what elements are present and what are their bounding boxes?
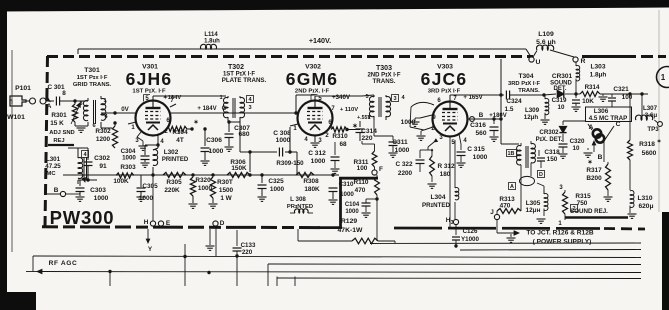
svg-text:3RD PɪX I·F: 3RD PɪX I·F <box>428 89 461 95</box>
svg-text:C303: C303 <box>90 187 106 194</box>
resistor R307 <box>211 173 214 176</box>
transformer T301 secondary <box>101 99 106 121</box>
svg-text:C321: C321 <box>613 86 629 93</box>
svg-text:5.6 μh: 5.6 μh <box>536 39 556 46</box>
wire C302 bottom join <box>78 179 97 181</box>
module border top dashed segment <box>47 55 533 58</box>
svg-text:1 W: 1 W <box>220 195 232 202</box>
ground C126 right <box>507 237 516 239</box>
svg-text:C319: C319 <box>552 97 567 104</box>
svg-text:10: 10 <box>558 104 565 111</box>
svg-text:Y: Y <box>148 246 153 253</box>
wire B to border <box>47 193 61 195</box>
module border bottom heavy right <box>394 227 600 230</box>
wire D drop <box>215 175 217 222</box>
resistor R315 <box>564 190 566 192</box>
svg-text:L305: L305 <box>526 200 541 207</box>
svg-text:1000: 1000 <box>139 195 154 202</box>
svg-text:PRINTED: PRINTED <box>162 157 189 163</box>
trap coil blob <box>593 129 601 137</box>
svg-text:R110: R110 <box>354 179 369 186</box>
pin 7 V303 <box>449 97 451 101</box>
terminal B <box>60 191 65 196</box>
svg-text:B: B <box>598 154 603 161</box>
module border bottom dashed left <box>42 225 320 229</box>
svg-text:+140V.: +140V. <box>309 36 331 45</box>
svg-text:1000: 1000 <box>345 209 359 215</box>
svg-text:D: D <box>220 220 225 227</box>
svg-text:620μ: 620μ <box>638 203 653 210</box>
svg-text:68: 68 <box>339 141 347 148</box>
wire pin5 to T302 top <box>153 95 226 97</box>
bus tick x277 <box>276 277 278 287</box>
svg-text:1.8μh: 1.8μh <box>590 72 607 79</box>
svg-text:5600: 5600 <box>642 150 657 157</box>
capacitor C311 <box>373 120 375 136</box>
svg-text:3: 3 <box>135 138 139 144</box>
svg-text:C133: C133 <box>241 242 256 249</box>
svg-text:10K: 10K <box>582 98 594 105</box>
svg-text:R308: R308 <box>303 178 319 185</box>
svg-text:R317: R317 <box>586 167 602 174</box>
inductor L301 <box>78 158 83 179</box>
transformer T303 primary <box>369 97 374 117</box>
svg-text:T302: T302 <box>228 64 244 71</box>
diode CR301 <box>544 94 556 95</box>
pin 4 V301 <box>157 135 159 148</box>
resistor R309 <box>296 172 314 177</box>
svg-text:470: 470 <box>355 187 366 194</box>
svg-text:L304: L304 <box>430 194 445 201</box>
svg-text:4T: 4T <box>176 137 184 144</box>
svg-text:F: F <box>379 166 383 173</box>
wire plug to C301 <box>46 100 54 102</box>
svg-text:2: 2 <box>164 129 168 135</box>
svg-text:1500: 1500 <box>219 187 234 194</box>
svg-text:TRANS.: TRANS. <box>518 88 540 94</box>
svg-text:R303: R303 <box>120 164 136 171</box>
label B +180V <box>470 117 475 122</box>
tube V302 envelope <box>298 101 333 136</box>
svg-text:U: U <box>536 59 541 66</box>
capacitor C319 <box>575 94 577 98</box>
inductor L304 printed <box>454 140 456 188</box>
svg-text:47.25: 47.25 <box>45 163 61 170</box>
svg-text:1.8uh: 1.8uh <box>204 39 220 45</box>
svg-text:3: 3 <box>393 96 396 102</box>
transformer T302 primary <box>223 98 228 118</box>
svg-text:2ND PɪX. I·F: 2ND PɪX. I·F <box>295 89 330 95</box>
connector contact circle 2 <box>40 98 46 104</box>
inductor L302 printed <box>153 148 158 150</box>
wire T301 secondary to grid <box>100 122 102 128</box>
svg-text:L109: L109 <box>538 31 554 38</box>
svg-text:+180V: +180V <box>489 113 507 119</box>
svg-text:6GM6: 6GM6 <box>286 69 338 89</box>
svg-text:L306: L306 <box>594 108 609 115</box>
cable W101 plug stub <box>11 100 13 104</box>
module border notch horizontal heavy <box>339 177 378 180</box>
svg-text:9: 9 <box>432 115 436 121</box>
svg-text:♦: ♦ <box>430 148 433 154</box>
capacitor C126 <box>455 225 457 236</box>
inductor L114 <box>201 44 217 49</box>
resistor R305 <box>163 172 186 177</box>
svg-text:RF AGC: RF AGC <box>49 260 78 267</box>
inductor L109 <box>533 51 537 58</box>
capacitor C310 <box>332 175 334 186</box>
svg-text:R 312: R 312 <box>437 163 454 170</box>
transformer T301 core <box>93 100 95 124</box>
svg-text:12μʜ: 12μʜ <box>526 207 541 214</box>
bus tick x185 <box>184 244 186 286</box>
pin 5 V302 boxed <box>314 96 316 100</box>
resistor R314 wire <box>576 93 580 95</box>
bus wire 2 <box>460 249 641 252</box>
wire H drop <box>152 175 154 221</box>
pin 9 V303 <box>420 115 432 118</box>
wire C301 to T301 <box>60 100 88 102</box>
resistor R311 <box>374 144 376 151</box>
wire V303 plate right <box>468 118 501 120</box>
svg-text:220K: 220K <box>164 187 180 194</box>
svg-text:H: H <box>144 219 149 226</box>
svg-text:7: 7 <box>331 106 335 112</box>
svg-text:R314: R314 <box>585 84 600 91</box>
svg-text:T304: T304 <box>518 73 533 80</box>
svg-text:R315: R315 <box>575 193 591 200</box>
svg-text:3RD PɪX I·F: 3RD PɪX I·F <box>508 81 540 87</box>
svg-text:R30T: R30T <box>217 179 233 186</box>
photo border bottom-left corner patch <box>0 292 36 310</box>
svg-text:C104: C104 <box>345 202 360 208</box>
svg-text:R309-150: R309-150 <box>276 160 304 167</box>
capacitor C314 <box>359 121 361 127</box>
capacitor C308 series <box>239 122 241 152</box>
svg-text:220: 220 <box>361 135 372 142</box>
terminal D <box>213 221 218 226</box>
svg-text:C320: C320 <box>570 138 585 145</box>
svg-text:C 312: C 312 <box>308 150 326 157</box>
resistor R110 <box>376 175 378 177</box>
wire R110 bottom to R129 <box>376 212 378 241</box>
bus wire left bend <box>32 256 34 272</box>
svg-text:B200: B200 <box>586 175 602 182</box>
svg-text:3: 3 <box>559 185 563 191</box>
svg-text:R301: R301 <box>51 112 67 119</box>
svg-text:+ 184V: + 184V <box>197 106 216 112</box>
svg-text:R129: R129 <box>341 218 357 225</box>
svg-text:3.6μ: 3.6μ <box>645 112 658 119</box>
bus wire 3 <box>268 263 641 266</box>
svg-text:A: A <box>47 103 52 110</box>
svg-text:1000: 1000 <box>270 186 285 193</box>
right page edge line <box>658 10 660 212</box>
svg-text:2200: 2200 <box>398 170 413 177</box>
capacitor C133 <box>236 230 238 246</box>
svg-text:J: J <box>490 209 494 216</box>
svg-text:1: 1 <box>558 221 562 227</box>
module border left dashed <box>45 56 48 226</box>
svg-text:180: 180 <box>440 171 451 178</box>
svg-text:4: 4 <box>463 138 467 144</box>
svg-text:C316: C316 <box>470 122 486 129</box>
capacitor C301 <box>55 97 57 106</box>
capacitor C322 <box>428 142 434 147</box>
svg-text:+ 110V: + 110V <box>340 107 358 113</box>
bus tick x295 <box>294 277 296 287</box>
svg-text:560: 560 <box>475 130 486 137</box>
transformer T302 secondary <box>240 98 245 118</box>
svg-text:DET.: DET. <box>553 86 566 92</box>
svg-text:C126: C126 <box>463 228 478 235</box>
svg-text:W101: W101 <box>7 114 25 121</box>
transformer T304 secondary <box>531 144 535 163</box>
capacitor C306 <box>204 129 206 146</box>
svg-text:✶: ✶ <box>587 159 592 166</box>
svg-text:1200: 1200 <box>96 136 111 143</box>
svg-text:1: 1 <box>131 125 135 131</box>
svg-text:( POWER SUPPLY): ( POWER SUPPLY) <box>533 239 592 246</box>
wire L302 joins grid row <box>151 173 154 176</box>
wire grid left <box>115 112 136 114</box>
svg-text:L310: L310 <box>637 195 652 202</box>
terminal F <box>372 170 377 175</box>
junction dot A-R301 <box>73 99 76 102</box>
transformer T303 core <box>378 97 380 117</box>
wire H3 to heavy <box>455 219 457 225</box>
pin 3 V301 <box>137 132 141 137</box>
capacitor C312 <box>334 142 336 155</box>
svg-text:15 K: 15 K <box>50 120 64 127</box>
svg-text:150: 150 <box>547 156 558 163</box>
bus wire 5 <box>277 277 641 280</box>
svg-text:150K: 150K <box>231 165 247 172</box>
pin 1 V301 <box>128 122 136 124</box>
svg-text:C310: C310 <box>339 181 354 188</box>
transformer T304 core <box>525 146 527 168</box>
svg-text:1.5: 1.5 <box>505 106 514 113</box>
svg-text:R: R <box>581 58 586 65</box>
transformer T303 secondary <box>386 96 391 116</box>
svg-text:L301: L301 <box>46 156 61 163</box>
trap adjust arrow <box>593 143 595 152</box>
svg-text:1000: 1000 <box>276 137 291 144</box>
tube V301 envelope <box>136 101 171 136</box>
photo border left bar <box>0 0 7 310</box>
svg-text:L114: L114 <box>204 32 218 38</box>
bus wire agc return <box>42 272 641 273</box>
svg-text:47K-1W: 47K-1W <box>338 227 364 234</box>
pin 1 V302 <box>290 124 298 126</box>
svg-text:1000: 1000 <box>340 191 354 198</box>
svg-text:PɪX. DET.: PɪX. DET. <box>536 137 563 143</box>
transformer T304 primary <box>517 146 521 165</box>
svg-text:ADJ SND: ADJ SND <box>49 130 74 136</box>
capacitor C321 <box>611 94 613 97</box>
svg-text:TO JCT. R126 & R12B: TO JCT. R126 & R12B <box>526 230 594 237</box>
module border notch vertical heavy <box>339 177 342 229</box>
svg-text:7: 7 <box>453 96 457 102</box>
trap ground <box>584 152 593 154</box>
svg-text:C324: C324 <box>506 98 522 105</box>
connector contact circle 1 <box>30 98 36 104</box>
bus wire rf agc top <box>33 256 641 258</box>
svg-text:1: 1 <box>367 115 370 121</box>
svg-text:1: 1 <box>293 126 297 132</box>
svg-text:1: 1 <box>219 95 222 101</box>
svg-text:L 308: L 308 <box>290 196 306 203</box>
cable W101 shield drop <box>11 50 13 252</box>
svg-text:TP3: TP3 <box>647 126 659 133</box>
svg-text:0V: 0V <box>121 106 129 113</box>
svg-text:+ 165V: + 165V <box>463 95 482 101</box>
svg-text:8: 8 <box>62 90 66 97</box>
resistor R301 <box>74 101 76 104</box>
capacitor C305 <box>140 176 142 188</box>
svg-text:L307: L307 <box>643 105 658 112</box>
svg-text:4: 4 <box>401 95 405 101</box>
svg-text:6JC6: 6JC6 <box>421 69 468 89</box>
ground near C133 <box>206 245 215 247</box>
svg-text:T303: T303 <box>376 65 392 72</box>
svg-text:C302: C302 <box>94 155 110 162</box>
svg-text:R318: R318 <box>639 141 655 148</box>
svg-text:SOUND REJ.: SOUND REJ. <box>570 208 608 215</box>
svg-text:1000: 1000 <box>209 148 224 155</box>
resistor R304 <box>165 123 167 129</box>
svg-text:1000: 1000 <box>473 154 488 161</box>
wire L301 top <box>77 148 79 155</box>
svg-text:1: 1 <box>661 73 666 82</box>
inductor L310 <box>630 190 634 207</box>
svg-text:12μh: 12μh <box>524 114 539 121</box>
svg-text:T301: T301 <box>84 67 100 74</box>
svg-text:91: 91 <box>99 163 107 170</box>
svg-text:R310: R310 <box>332 133 348 140</box>
svg-text:R302: R302 <box>95 128 111 135</box>
svg-text:MC: MC <box>46 171 56 177</box>
svg-text:C 322: C 322 <box>395 161 412 168</box>
resistor R313 <box>496 211 498 215</box>
circled section marker 1 <box>657 67 669 88</box>
svg-text:R305: R305 <box>166 179 182 186</box>
pin 2 V303 <box>424 127 433 130</box>
junction R304 right <box>190 127 193 130</box>
pin 3 V302 <box>314 136 316 142</box>
capacitor C315 <box>460 144 462 150</box>
capacitor C324 series <box>501 94 504 96</box>
svg-text:1000: 1000 <box>122 155 136 162</box>
bus tick x110 <box>109 272 111 287</box>
bus wire 1 <box>370 242 641 245</box>
svg-text:1ST PɪX. I·F: 1ST PɪX. I·F <box>132 89 166 95</box>
svg-text:220: 220 <box>242 249 253 256</box>
coupling loop L305 link <box>520 176 535 185</box>
resistor R306 <box>227 172 250 177</box>
capacitor C325 <box>260 173 263 176</box>
photo border bottom-right corner patch <box>662 212 669 310</box>
wire plate row y113 <box>170 112 296 114</box>
svg-text:100K: 100K <box>113 178 129 185</box>
node A arrow <box>46 98 50 102</box>
inductor L307 <box>641 94 643 120</box>
svg-text:+340V: +340V <box>332 94 351 101</box>
svg-text:✶: ✶ <box>657 138 662 145</box>
svg-text:E: E <box>166 220 171 227</box>
module border top dashed segment right <box>582 55 636 58</box>
resistor R129 <box>298 240 352 242</box>
wire V303 cathode drop <box>449 148 451 227</box>
svg-text:C311: C311 <box>392 139 408 146</box>
svg-text:1000: 1000 <box>198 185 213 192</box>
svg-text:750: 750 <box>577 200 588 207</box>
svg-text:1000: 1000 <box>94 195 109 202</box>
svg-text:C318: C318 <box>544 149 560 156</box>
wire T303 pri top <box>362 95 374 96</box>
wire V303 pin7 up <box>449 95 451 101</box>
wire T301 primary bottom <box>75 125 88 127</box>
svg-text:REJ: REJ <box>53 138 64 144</box>
svg-text:B: B <box>54 187 59 194</box>
svg-text:C325: C325 <box>268 178 284 185</box>
diode CR302 <box>563 120 586 122</box>
svg-text:C 308: C 308 <box>273 130 291 137</box>
svg-text:1000: 1000 <box>395 147 410 154</box>
wire R129 right drop <box>394 241 396 244</box>
module border bottom dashed far right <box>604 227 645 230</box>
svg-text:4: 4 <box>160 139 164 145</box>
wire R302 top to tube grid <box>101 112 136 114</box>
photo border top bar <box>0 0 669 12</box>
svg-text:C 315: C 315 <box>467 146 485 153</box>
svg-text:100: 100 <box>357 165 368 172</box>
transformer T301 primary <box>83 100 88 120</box>
resistor R312 <box>431 150 433 156</box>
capacitor C318 <box>538 150 540 156</box>
+140V rail entry tick <box>77 49 79 54</box>
svg-text:5: 5 <box>365 94 368 100</box>
resistor R317 <box>607 162 609 164</box>
svg-text:R304: R304 <box>172 129 188 136</box>
wire V302 pin5 up <box>315 95 362 97</box>
trap L306 box <box>586 107 632 122</box>
pin 4 V303 <box>459 134 461 144</box>
svg-text:C314: C314 <box>361 128 377 135</box>
svg-text:PLATE TRANS.: PLATE TRANS. <box>222 77 267 84</box>
svg-text:1ST Pɪx I·F: 1ST Pɪx I·F <box>77 75 108 81</box>
svg-text:PRɪNTED: PRɪNTED <box>422 202 450 209</box>
svg-text:C: C <box>616 121 621 128</box>
svg-text:3: 3 <box>248 105 251 111</box>
capacitor C320 <box>562 140 564 142</box>
capacitor C303 <box>79 180 81 186</box>
capacitor C104 <box>362 202 371 204</box>
pin 5 V301 <box>152 96 154 100</box>
inductor L305 <box>543 190 545 194</box>
svg-text:4: 4 <box>104 114 108 120</box>
svg-text:3: 3 <box>79 101 82 107</box>
svg-text:180K: 180K <box>304 186 320 193</box>
svg-text:GRID TRANS.: GRID TRANS. <box>73 82 112 88</box>
svg-text:L303: L303 <box>590 64 605 71</box>
svg-text:P101: P101 <box>15 85 31 92</box>
connector P101 plug <box>10 96 26 106</box>
svg-text:B: B <box>479 112 484 119</box>
svg-text:1: 1 <box>103 98 106 104</box>
svg-text:4.5 MC TRAP: 4.5 MC TRAP <box>589 115 628 122</box>
resistor R302 <box>112 126 117 148</box>
